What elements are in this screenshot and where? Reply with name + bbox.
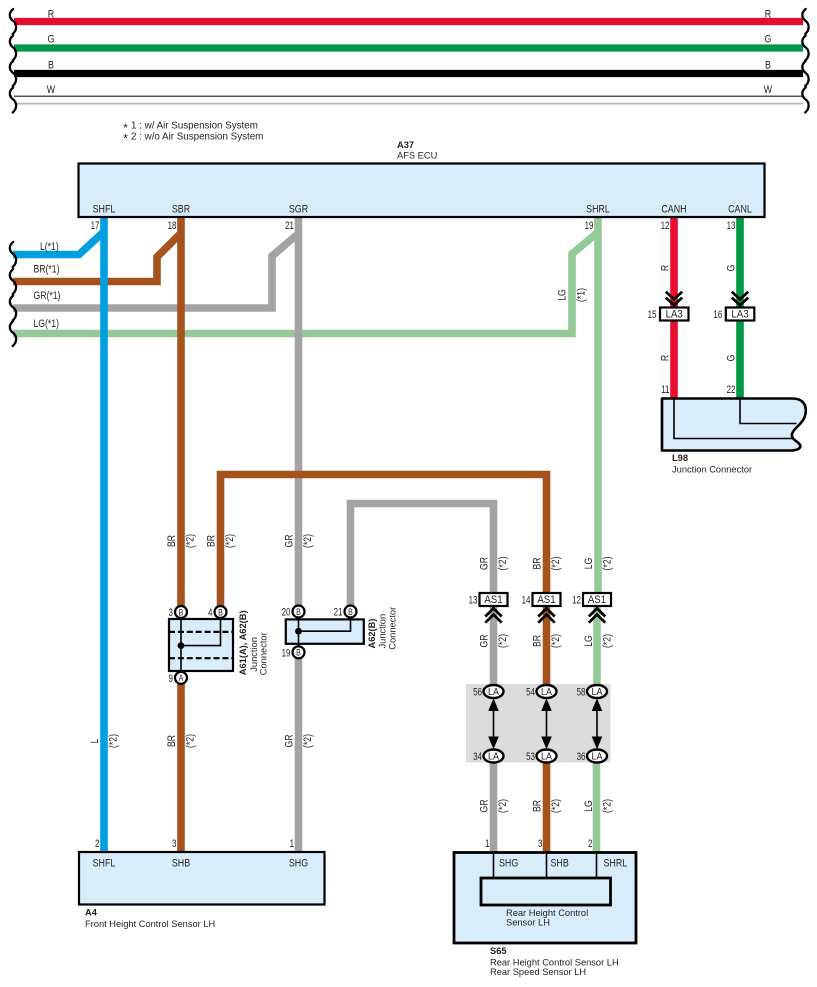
label GR (*2) below LA 34 [478,799,509,813]
svg-text:W: W [764,84,773,96]
svg-text:(*2): (*2) [224,534,236,548]
wire BR brown A61 terminal B4 to AS1 pin14 [221,475,547,607]
label GR (*2) above AS1 13 [478,557,509,571]
wire G LA3 pin16 to L98 pin22 [736,321,744,400]
svg-text:LA: LA [541,686,552,698]
label LG (*2) above AS1 12 [583,557,614,571]
pin 3 label [169,607,174,620]
svg-text:B: B [218,608,223,618]
terminal B pin21 of A62 [345,606,357,618]
label BR (*2) above AS1 14 [531,557,562,571]
pin 22 label at L98 [727,384,736,397]
wire BR brown SBR pin18 to A61 terminal B3 [177,217,185,607]
label BR (*2) below AS1 14 [531,634,562,648]
svg-text:CANH: CANH [661,204,686,216]
label LG (*2) below AS1 12 [583,634,614,648]
wire BR LA pin53 to S65 pin3 [543,761,551,853]
terminal B pin19 of A62 [293,646,305,658]
svg-text:(*2): (*2) [550,799,562,813]
svg-text:CANL: CANL [728,204,752,216]
terminal B pin3 of A61 [175,606,187,618]
connector AS1 pin12 [572,593,611,607]
shielded section gray box [466,684,611,763]
label GR (*2) on wire B20 [283,534,314,548]
pin CANH 12 of A37 [661,204,687,233]
wire-break squiggle right of bus wire G [802,36,808,61]
svg-text:R: R [48,8,54,20]
label R on CANH wire upper [659,265,671,271]
pin SHG 1 of A4 [289,838,308,870]
svg-text:BR: BR [531,557,543,569]
svg-text:LG(*1): LG(*1) [34,318,59,330]
pin 4 label [208,607,213,620]
wire-break squiggle left of bus wire B [10,61,16,86]
label S65 Rear Height Control Sensor LH / Rear Speed Sensor LH [490,946,619,977]
svg-text:19: 19 [282,647,291,660]
A62 internal wire B20 to B19 [298,619,300,647]
terminal LA pin36 [587,750,607,763]
label BR (*2) on wire B4 [205,534,236,548]
S65 internal sensor body box [481,878,611,905]
svg-text:LG: LG [556,289,568,301]
wire LG(*1) branch to SHRL [13,232,598,334]
svg-text:LA: LA [541,751,552,763]
wire BR AS1 pin14 to LA pin54 [543,606,551,686]
connector LA3 pin16 [713,308,754,322]
svg-text:A: A [179,673,184,683]
wire-break squiggle left of bus wire R [10,9,16,34]
svg-text:SBR: SBR [172,204,190,216]
wire-break squiggle right of bus wire R [802,9,808,34]
svg-text:54: 54 [526,686,535,699]
svg-text:GR: GR [478,800,490,813]
wire L(*1) branch to SHFL [13,232,104,255]
pin SHFL 17 of A37 [91,204,116,233]
svg-text:15: 15 [648,309,657,322]
pin 11 label at L98 [661,384,669,397]
svg-text:G: G [725,265,737,272]
svg-text:GR(*1): GR(*1) [34,290,61,302]
svg-text:13: 13 [469,594,478,607]
pin CANL 13 of A37 [727,204,753,233]
pin 56 label [473,686,482,699]
svg-text:2: 2 [95,838,99,851]
wire R LA3 pin15 to L98 pin11 [670,321,678,400]
svg-text:GR: GR [478,635,490,648]
pin SHG 1 of S65 [485,838,518,870]
svg-text:LA: LA [488,751,499,763]
svg-text:(*2): (*2) [302,734,314,748]
pin SHRL 19 of A37 [585,204,610,233]
L98 internal bus bar from pin 11 [674,399,793,439]
A61 internal wire junction to B4 [178,619,221,649]
svg-text:R: R [765,8,771,20]
svg-text:G: G [765,34,772,46]
A61 internal wire B3 to A9 [180,619,182,673]
label GR (*2) above A4 [283,734,314,748]
svg-text:SGR: SGR [289,204,308,216]
bus wire R [14,8,803,21]
svg-text:3: 3 [538,838,543,851]
pin 20 label [282,606,291,619]
bus wire G [14,34,803,48]
wire LG SHRL pin19 to AS1 pin12 [594,217,602,594]
ECU A37 box [79,164,765,218]
wire LG AS1 pin12 to LA pin58 [593,606,601,686]
wire GR(*1) branch to SGR [13,234,299,309]
pin 36 label [577,751,586,764]
wire R CANH pin12 to LA3 pin15 [670,217,678,309]
svg-text:(*2): (*2) [601,634,613,648]
pin SBR 18 of A37 [168,204,191,233]
svg-text:GR: GR [478,557,490,570]
junction connector A62(B) box [286,619,364,643]
component A4 Front Height Control Sensor LH box [79,852,325,905]
wire BR brown A61 terminal A9 to A4 pin3 [177,683,185,852]
svg-text:SHG: SHG [499,858,518,870]
arrow chevrons below AS1 14 [538,608,554,622]
svg-text:SHRL: SHRL [604,858,628,870]
wire LG LA pin36 to S65 pin2 [593,761,601,853]
label BR (*2) on wire B3 [166,534,197,548]
svg-text:(*2): (*2) [550,557,562,571]
svg-text:3: 3 [172,838,177,851]
svg-text:S65: S65 [490,946,507,956]
svg-text:19: 19 [585,220,594,233]
label R on CANH wire lower [659,355,671,361]
svg-text:(*2): (*2) [497,799,509,813]
terminal LA pin58 [587,685,607,698]
svg-text:56: 56 [473,686,482,699]
svg-text:*: * [123,132,128,146]
label LG(*1) horizontal [34,318,59,330]
arrow chevrons below AS1 12 [589,608,605,622]
wire BR(*1) branch to SBR [13,233,181,282]
wire GR AS1 pin13 to LA pin56 [490,606,498,686]
wire GR LA pin34 to S65 pin1 [490,761,498,853]
svg-text:BR: BR [531,800,543,812]
svg-text:53: 53 [526,751,535,764]
svg-text:LA: LA [488,686,499,698]
svg-text:AS1: AS1 [588,594,606,607]
twisted-pair arrow between LA 56 and LA 34 [488,698,499,749]
label A37 AFS ECU [397,140,437,161]
svg-text:BR: BR [166,535,178,547]
wire-break squiggle LG(*1) [10,321,16,346]
wire-break squiggle right of bus wire B [802,61,808,86]
junction connector A61(A) A62(B) box [169,619,233,671]
wire-break squiggle L(*1) [10,242,16,267]
pin 19 label [282,647,291,660]
svg-text:Junction: Junction [377,614,387,649]
svg-text:Front Height Control Sensor LH: Front Height Control Sensor LH [85,919,215,929]
svg-text:L98: L98 [672,453,688,463]
svg-text:GR: GR [283,735,295,748]
label LG (*2) below LA 36 [583,799,614,813]
svg-text:SHRL: SHRL [586,204,610,216]
svg-text:SHFL: SHFL [93,204,116,216]
svg-text:Junction Connector: Junction Connector [672,465,752,475]
terminal LA pin54 [537,685,557,698]
svg-text:B: B [296,607,301,617]
svg-text:AS1: AS1 [537,594,555,607]
pin SGR 21 of A37 [285,204,308,233]
svg-text:A62(B): A62(B) [367,619,377,649]
svg-text:(*2): (*2) [550,634,562,648]
svg-text:SHB: SHB [551,858,569,870]
svg-text:(*2): (*2) [302,534,314,548]
svg-text:Rear Height Control Sensor LH: Rear Height Control Sensor LH [490,958,619,968]
arrow chevrons below AS1 13 [485,608,501,622]
label BR(*1) [34,263,60,275]
pin 34 label [473,751,482,764]
wire GR gray A62 terminal B21 to AS1 pin13 [351,504,494,607]
svg-text:17: 17 [91,220,100,233]
svg-text:12: 12 [661,220,670,233]
junction connector L98 body [662,399,806,451]
svg-text:G: G [48,34,55,46]
S65 internal pin dividers [494,854,597,879]
connector LA3 pin15 [648,308,689,322]
wire-break squiggle BR(*1) [10,269,16,294]
svg-text:3: 3 [169,607,174,620]
svg-text:21: 21 [285,220,294,233]
pin SHRL 2 of S65 [588,838,627,870]
pin SHB 3 of A4 [172,838,190,870]
twisted-pair arrow between LA 58 and LA 36 [592,698,603,749]
svg-text:Connector: Connector [388,607,398,650]
svg-text:Rear Speed Sensor LH: Rear Speed Sensor LH [490,967,586,977]
svg-text:4: 4 [208,607,213,620]
terminal LA pin56 [484,685,504,698]
svg-text:LA: LA [592,686,603,698]
svg-text:9: 9 [169,673,173,686]
svg-text:BR(*1): BR(*1) [34,263,60,275]
terminal LA pin53 [537,750,557,763]
svg-text:34: 34 [473,751,482,764]
svg-text:LA: LA [592,751,603,763]
svg-text:14: 14 [522,594,531,607]
label L98 Junction Connector [672,453,752,475]
svg-text:L(*1): L(*1) [40,241,59,253]
svg-text:AFS ECU: AFS ECU [397,151,437,161]
wire-break squiggle GR(*1) [10,296,16,321]
pin SHB 3 of S65 [538,838,569,870]
svg-text:1: 1 [485,838,489,851]
A62 internal wire junction to B21 [295,619,350,634]
svg-text:BR: BR [166,735,178,747]
bus wire B [14,60,803,74]
svg-text:BR: BR [531,635,543,647]
svg-text:LG: LG [583,635,595,647]
svg-text:B: B [348,607,353,617]
bus wire W (white with outline) [14,84,803,104]
svg-text:R: R [659,355,671,361]
wire-break squiggle right of bus wire W [802,88,808,113]
svg-text:(*2): (*2) [184,534,196,548]
svg-text:A37: A37 [397,140,414,150]
pin SHFL 2 of A4 [93,838,116,870]
label GR(*1) [34,290,61,302]
wire GR gray A62 terminal B19 to A4 pin1 [295,658,303,852]
svg-text:(*2): (*2) [107,734,119,748]
wire GR gray SGR pin21 to A62 terminal B20 [295,217,303,606]
svg-text:11: 11 [661,384,669,397]
svg-text:12: 12 [572,594,581,607]
svg-text:W: W [47,84,56,96]
svg-text:B: B [296,648,301,658]
pin 9 label [169,673,173,686]
svg-text:LA3: LA3 [666,308,683,321]
svg-text:22: 22 [727,384,736,397]
svg-text:58: 58 [577,686,586,699]
label A4 Front Height Control Sensor LH [85,908,215,929]
label GR (*2) below AS1 13 [478,634,509,648]
wire L blue SHFL pin17 to A4 pin2 [100,217,108,853]
terminal LA pin34 [484,750,504,763]
svg-text:2 : w/o Air Suspension System: 2 : w/o Air Suspension System [131,131,263,142]
legend note *1 / *2 [123,121,263,146]
wire-break squiggle left of bus wire G [10,36,16,61]
label BR (*2) above A4 [166,734,197,748]
label L(*1) [40,241,59,253]
svg-text:SHFL: SHFL [93,858,116,870]
label A62(B) Junction Connector [367,607,398,650]
svg-text:(*2): (*2) [497,634,509,648]
svg-text:21: 21 [334,606,343,619]
svg-text:1 : w/ Air Suspension System: 1 : w/ Air Suspension System [131,121,258,132]
svg-text:A4: A4 [85,908,98,918]
label G on CANL wire upper [725,265,737,272]
component S65 Rear Height Control Sensor LH box [454,853,636,944]
svg-text:B: B [765,60,771,72]
svg-text:G: G [725,355,737,362]
terminal B pin20 of A62 [293,606,305,618]
svg-text:18: 18 [168,220,177,233]
svg-text:20: 20 [282,606,291,619]
svg-text:Connector: Connector [258,632,268,675]
svg-text:SHG: SHG [289,858,308,870]
svg-text:1: 1 [290,838,294,851]
svg-text:(*2): (*2) [601,557,613,571]
svg-text:16: 16 [713,309,722,322]
label G on CANL wire lower [725,355,737,362]
svg-text:GR: GR [283,535,295,548]
pin 21 label [334,606,343,619]
pin 54 label [526,686,535,699]
label L (*2) above A4 [89,734,120,748]
connector AS1 pin13 [469,593,508,607]
label LG (*1) rotated on riser [556,288,587,302]
label BR (*2) below LA 53 [531,799,562,813]
connector AS1 pin14 [522,593,561,607]
pin 53 label [526,751,535,764]
svg-text:(*2): (*2) [601,799,613,813]
wire-break squiggle left of bus wire W [10,88,16,113]
svg-text:LA3: LA3 [731,308,748,321]
svg-text:SHB: SHB [172,858,190,870]
twisted-pair arrow between LA 54 and LA 53 [541,698,552,749]
svg-text:36: 36 [577,751,586,764]
svg-text:(*2): (*2) [497,557,509,571]
svg-text:(*2): (*2) [184,734,196,748]
wire G CANL pin13 to LA3 pin16 [736,217,744,309]
svg-text:13: 13 [727,220,736,233]
svg-text:B: B [48,60,54,72]
svg-text:AS1: AS1 [484,594,502,607]
terminal B pin4 of A61 [215,606,227,618]
svg-text:BR: BR [205,535,217,547]
svg-text:B: B [179,608,184,618]
svg-text:2: 2 [588,838,592,851]
svg-text:LG: LG [583,558,595,570]
S65 internal label Rear Height Control Sensor LH [506,908,588,927]
pin 58 label [577,686,586,699]
svg-text:R: R [659,265,671,271]
L98 internal bus bar from pin 22 [740,399,797,424]
arrow chevrons into LA3 15 [666,292,682,305]
svg-text:LG: LG [583,800,595,812]
arrow chevrons into LA3 16 [732,292,748,305]
svg-text:L: L [89,738,101,743]
svg-text:Sensor LH: Sensor LH [506,917,550,927]
svg-text:(*1): (*1) [575,288,587,302]
terminal A pin9 of A61 [175,672,187,684]
svg-text:A61(A), A62(B): A61(A), A62(B) [238,610,248,675]
label A61(A), A62(B) Junction Connector [238,610,268,675]
